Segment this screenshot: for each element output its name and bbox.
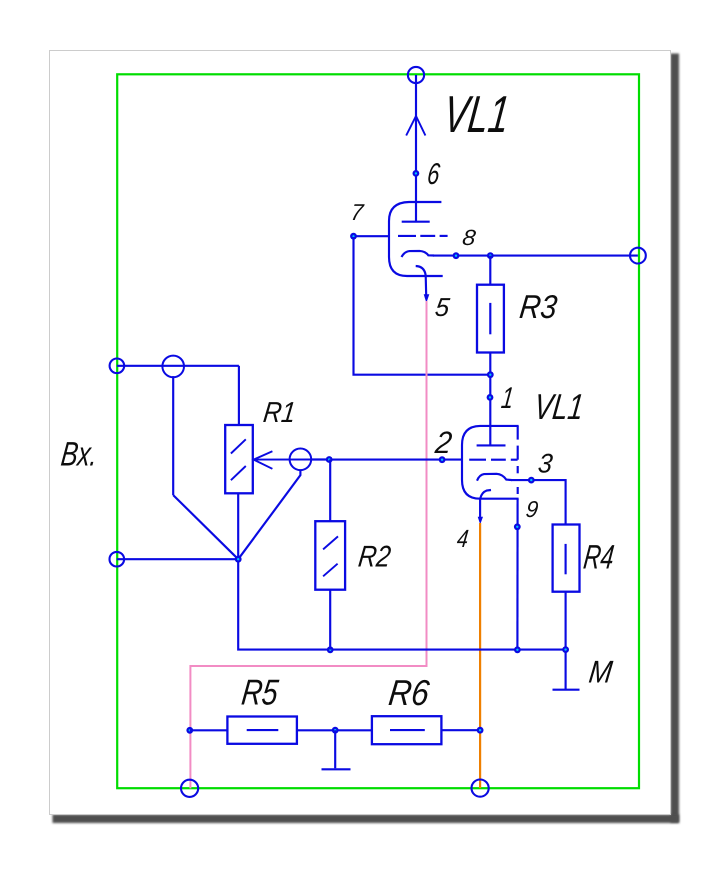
node pin 2: [439, 456, 446, 463]
ground M bar: [553, 689, 580, 691]
junction R3 top: [487, 252, 494, 259]
triode VL1b envelope: [462, 426, 519, 499]
connector circle B (wiper): [290, 449, 312, 471]
wire R4 bottom lead: [565, 592, 567, 650]
wire diagonal A to junction: [173, 495, 238, 559]
terminal left top: [110, 359, 125, 374]
svg-text:Bx.: Bx.: [59, 436, 100, 474]
junction pink to R5: [186, 727, 193, 734]
resistor R5: [227, 717, 297, 744]
terminal top: [408, 67, 424, 83]
junction R2 top: [326, 456, 333, 463]
junction R3 bottom: [487, 371, 494, 378]
triode VL1a cathode: [402, 251, 435, 257]
wire input bottom: [117, 558, 238, 560]
resistor R3: [477, 285, 504, 353]
R1 wiper arrow: [254, 451, 312, 469]
svg-text:R2: R2: [357, 541, 393, 574]
terminal bottom left: [181, 780, 198, 797]
arrow up on supply wire: [406, 116, 425, 136]
wire orange heater net: [479, 523, 481, 788]
svg-text:R5: R5: [240, 672, 282, 713]
wire R1 bottom lead: [237, 493, 239, 559]
wire diagonal wiper to junction: [238, 470, 300, 559]
triode VL1b cathode: [477, 474, 512, 481]
svg-text:R6: R6: [387, 672, 433, 713]
node pin 6: [413, 170, 420, 177]
resistor R4: [553, 525, 580, 592]
node pin 1: [487, 394, 494, 401]
connector circle A: [162, 356, 184, 378]
terminal left bottom: [110, 552, 125, 567]
wire pin7 to R3 bottom node: [354, 237, 490, 375]
node pin 9: [514, 523, 521, 530]
junction bus R2: [327, 646, 334, 653]
node pin 3: [528, 477, 535, 484]
wire bottom bus: [238, 559, 565, 649]
triode VL1b envelope right side (dashed): [517, 426, 519, 494]
wire ground M stem: [565, 650, 567, 689]
arrow pin 4: [478, 517, 483, 525]
triode VL1a heater lead: [416, 266, 427, 296]
resistor R2: [315, 521, 345, 590]
wire R5 to R6: [297, 729, 372, 731]
wire R3 top lead: [489, 256, 491, 285]
svg-text:VL1: VL1: [441, 86, 513, 144]
wire to R5 left: [190, 729, 228, 731]
junction orange R6: [477, 727, 484, 734]
node pin 8: [453, 252, 460, 259]
resistor R6: [372, 716, 442, 744]
junction bus R4: [562, 646, 569, 653]
svg-text:VL1: VL1: [532, 386, 586, 427]
terminal right: [630, 248, 646, 264]
wire R3 bottom to VL1b anode: [489, 353, 491, 446]
wire R1 top lead: [238, 366, 240, 425]
junction ground mid: [332, 727, 339, 734]
wire top supply vertical: [415, 75, 417, 221]
wire cathode pin 8 to right terminal: [433, 255, 638, 257]
wire pink heater net: [190, 301, 426, 788]
arrow pin 5: [424, 294, 430, 303]
triode VL1a grid (dashed): [398, 235, 448, 237]
svg-text:R4: R4: [582, 539, 617, 577]
resistor R1: [225, 425, 253, 493]
node pin 7: [350, 233, 357, 240]
ground mid bar: [322, 768, 351, 770]
ground mid stem: [334, 730, 336, 768]
triode VL1b anode plate: [477, 444, 506, 446]
triode VL1a anode plate: [402, 221, 430, 223]
wire grid lead pin 7: [354, 235, 390, 237]
svg-text:R1: R1: [262, 397, 298, 429]
wire cathode pin 3 to R4: [511, 480, 566, 524]
wire grid lead pin 2: [329, 459, 462, 461]
junction bus pin9: [514, 646, 521, 653]
terminal bottom right: [472, 780, 489, 797]
junction main left: [235, 556, 242, 563]
triode VL1b grid (dashed): [469, 459, 517, 461]
wire pin 9 down: [516, 499, 518, 650]
wire wiper to grid: [311, 458, 331, 460]
triode VL1b heater lead: [480, 490, 491, 498]
wire connector A down: [172, 376, 174, 495]
wire heater down: [479, 499, 481, 519]
wire input top: [117, 365, 239, 367]
svg-text:R3: R3: [518, 289, 560, 326]
wire R6 to orange net: [441, 729, 480, 731]
triode VL1a envelope: [389, 202, 443, 276]
wire R2 top lead: [329, 460, 331, 522]
wire R2 bottom lead: [329, 590, 331, 650]
